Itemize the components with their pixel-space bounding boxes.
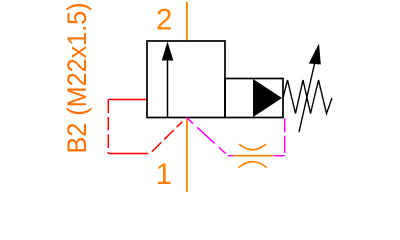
pilot line vertical dashed	[107, 100, 109, 154]
pilot triangle	[253, 79, 282, 117]
svg-text:1: 1	[156, 158, 172, 191]
pilot line bottom horizontal dashed	[108, 153, 148, 155]
port 1 line	[186, 118, 188, 192]
drain line horizontal dashed	[274, 155, 285, 157]
spring	[283, 80, 332, 114]
svg-text:B2 (M22x1.5): B2 (M22x1.5)	[63, 2, 92, 153]
restrictor bottom arc	[239, 162, 267, 168]
restrictor line	[233, 155, 273, 157]
svg-text:2: 2	[156, 3, 172, 36]
flow arrow shaft	[167, 58, 169, 117]
pilot line diagonal dashed	[150, 119, 186, 154]
adjustment arrow head	[309, 44, 321, 65]
drain line short horizontal	[228, 155, 234, 157]
drain line diagonal dashed	[187, 118, 229, 156]
valve body	[147, 41, 225, 118]
restrictor top arc	[239, 144, 266, 150]
port 2 line	[186, 2, 188, 41]
drain line vertical dashed	[284, 118, 286, 155]
pilot actuator box	[225, 79, 283, 118]
flow arrow head	[162, 42, 174, 61]
adjustment arrow shaft	[299, 55, 317, 132]
pilot line solid segment to valve left	[108, 99, 146, 101]
